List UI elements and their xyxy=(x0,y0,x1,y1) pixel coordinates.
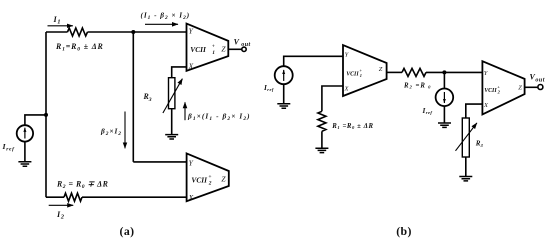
svg-text:VCII: VCII xyxy=(191,175,208,184)
current source Iref (fig a) xyxy=(17,125,33,141)
svg-text:R3: R3 xyxy=(143,92,152,103)
op-amp VCII2 (fig b) trapezoid xyxy=(482,61,524,114)
svg-text:2: 2 xyxy=(497,90,501,95)
svg-text:VCII: VCII xyxy=(190,45,207,54)
svg-text:Iref: Iref xyxy=(422,106,433,115)
wire: R3 bottom to ground xyxy=(171,109,173,135)
svg-text:(I1 - β2 × I2): (I1 - β2 × I2) xyxy=(141,10,191,21)
svg-text:Y: Y xyxy=(484,70,489,77)
wire: VCII1 X pin to R3 xyxy=(172,67,187,78)
wire: fig(a) left vertical rail xyxy=(45,32,47,197)
wire: fig(a) top wire, left of R1 xyxy=(46,31,68,33)
op-amp VCII1 (fig b) trapezoid xyxy=(343,45,387,96)
svg-text:β1×(I1 - β2× I2): β1×(I1 - β2× I2) xyxy=(187,112,251,123)
current arrow (I1 - β2 × I2) xyxy=(145,23,178,25)
svg-text:X: X xyxy=(483,102,489,109)
wire: fig(a) bottom wire, R2 to VCII2 X pin xyxy=(82,196,187,198)
current arrow β1×(I1 - β2× I2) upward xyxy=(184,102,186,120)
wire: VCII1 Z to Vout terminal xyxy=(228,48,242,50)
wire: R1b bottom to ground xyxy=(321,131,323,148)
wire: junction down to Iref2 xyxy=(443,72,445,88)
svg-text:VCII: VCII xyxy=(484,88,497,94)
op-amp VCII1 (fig a) trapezoid xyxy=(187,24,229,71)
terminal Vout (fig b) xyxy=(538,85,543,90)
wire: R3b bottom to ground xyxy=(465,157,467,176)
wire: VCII1b Z pin to R2 xyxy=(387,71,402,73)
svg-text:+: + xyxy=(212,44,215,50)
svg-text:I1: I1 xyxy=(53,15,62,26)
svg-text:Z: Z xyxy=(379,66,383,73)
ground (below Iref, fig b left) xyxy=(277,104,290,108)
wire: horizontal into VCII2 Y pin xyxy=(133,161,186,163)
current arrow I2 xyxy=(49,204,73,206)
svg-text:X: X xyxy=(344,85,350,92)
wire: source bottom to ground xyxy=(283,84,285,103)
svg-text:R1=R0 ± ΔR: R1=R0 ± ΔR xyxy=(55,42,104,53)
node: junction of Iref tap on left rail xyxy=(44,113,48,117)
svg-text:+: + xyxy=(359,68,362,73)
ground (below Iref2, fig b) xyxy=(438,123,451,127)
wire: source top to VCII1 Y pin xyxy=(284,56,343,66)
svg-text:R3: R3 xyxy=(475,140,484,148)
svg-text:Z: Z xyxy=(221,175,226,184)
svg-text:(b): (b) xyxy=(396,224,412,238)
svg-text:R1 =R0 ± ΔR: R1 =R0 ± ΔR xyxy=(331,123,373,130)
svg-text:Z: Z xyxy=(221,45,226,54)
resistor R1 (fig a) zigzag xyxy=(68,28,88,36)
svg-text:R2 =R 0: R2 =R 0 xyxy=(403,82,431,89)
arrow through R3 (fig b, variable) xyxy=(456,123,477,151)
ground (below R3, fig a) xyxy=(165,135,178,139)
resistor R3 (fig b) box xyxy=(462,118,469,157)
ground (below R3, fig b) xyxy=(459,177,472,181)
wire: fig(a) top wire, R1 to VCII1 Y pin xyxy=(88,31,187,33)
ground (below R1, fig b) xyxy=(315,148,328,152)
svg-text:Iref: Iref xyxy=(263,83,274,92)
current source Iref2 (fig b, arrow down) xyxy=(436,89,454,107)
wire: R2 to VCII2b Y pin xyxy=(426,71,482,73)
svg-text:Vout: Vout xyxy=(530,73,545,84)
svg-text:Y: Y xyxy=(189,27,194,36)
svg-text:1: 1 xyxy=(360,73,362,78)
svg-text:1: 1 xyxy=(212,50,215,56)
arrow through R3 (variable) xyxy=(163,79,183,113)
wire: fig(a) bottom wire, left of R2 xyxy=(46,196,64,198)
resistor R1 (fig b) vertical zigzag xyxy=(318,111,326,131)
svg-text:X: X xyxy=(188,62,194,71)
svg-text:I2: I2 xyxy=(56,210,65,221)
resistor R2 (fig b) zigzag xyxy=(402,68,426,76)
terminal Vout (fig a) xyxy=(242,47,246,51)
svg-text:+: + xyxy=(497,84,500,89)
svg-text:+: + xyxy=(208,174,211,180)
svg-text:β2×I2: β2×I2 xyxy=(100,127,122,138)
svg-text:Y: Y xyxy=(345,51,350,58)
svg-text:(a): (a) xyxy=(120,224,135,238)
wire: VCII2b X pin left and down to R3 xyxy=(466,104,483,118)
svg-text:Iref: Iref xyxy=(2,142,16,153)
svg-text:VCII: VCII xyxy=(346,71,359,77)
svg-text:R2 = R0 ∓ ΔR: R2 = R0 ∓ ΔR xyxy=(56,180,108,191)
current arrow I1 xyxy=(48,25,73,27)
svg-text:2: 2 xyxy=(208,181,212,187)
wire: VCII2b Z to Vout terminal xyxy=(525,86,538,88)
svg-text:Y: Y xyxy=(189,158,194,167)
svg-text:V out: V out xyxy=(234,37,251,48)
resistor R2 (fig a) zigzag xyxy=(64,193,82,201)
node: junction at R2 / Iref2 xyxy=(442,70,446,74)
current arrow β2×I2 (downward) xyxy=(124,112,126,149)
ground (below Iref, fig a) xyxy=(18,162,31,166)
svg-text:X: X xyxy=(188,193,194,202)
wire: VCII1b X pin left and down to R1 xyxy=(322,86,343,111)
svg-text:Z: Z xyxy=(518,85,522,92)
node: junction on top wire xyxy=(131,30,135,34)
resistor R3 (fig a) box xyxy=(169,78,175,109)
op-amp VCII2 (fig a) trapezoid xyxy=(187,153,229,201)
wire: Iref2 bottom to ground xyxy=(443,106,445,123)
current source Iref (fig b, left) xyxy=(275,66,293,84)
wire: middle vertical rail from junction down xyxy=(132,32,134,162)
wire: source bottom to ground xyxy=(24,142,26,162)
wire: Iref tap horizontal + down to source xyxy=(25,115,46,125)
